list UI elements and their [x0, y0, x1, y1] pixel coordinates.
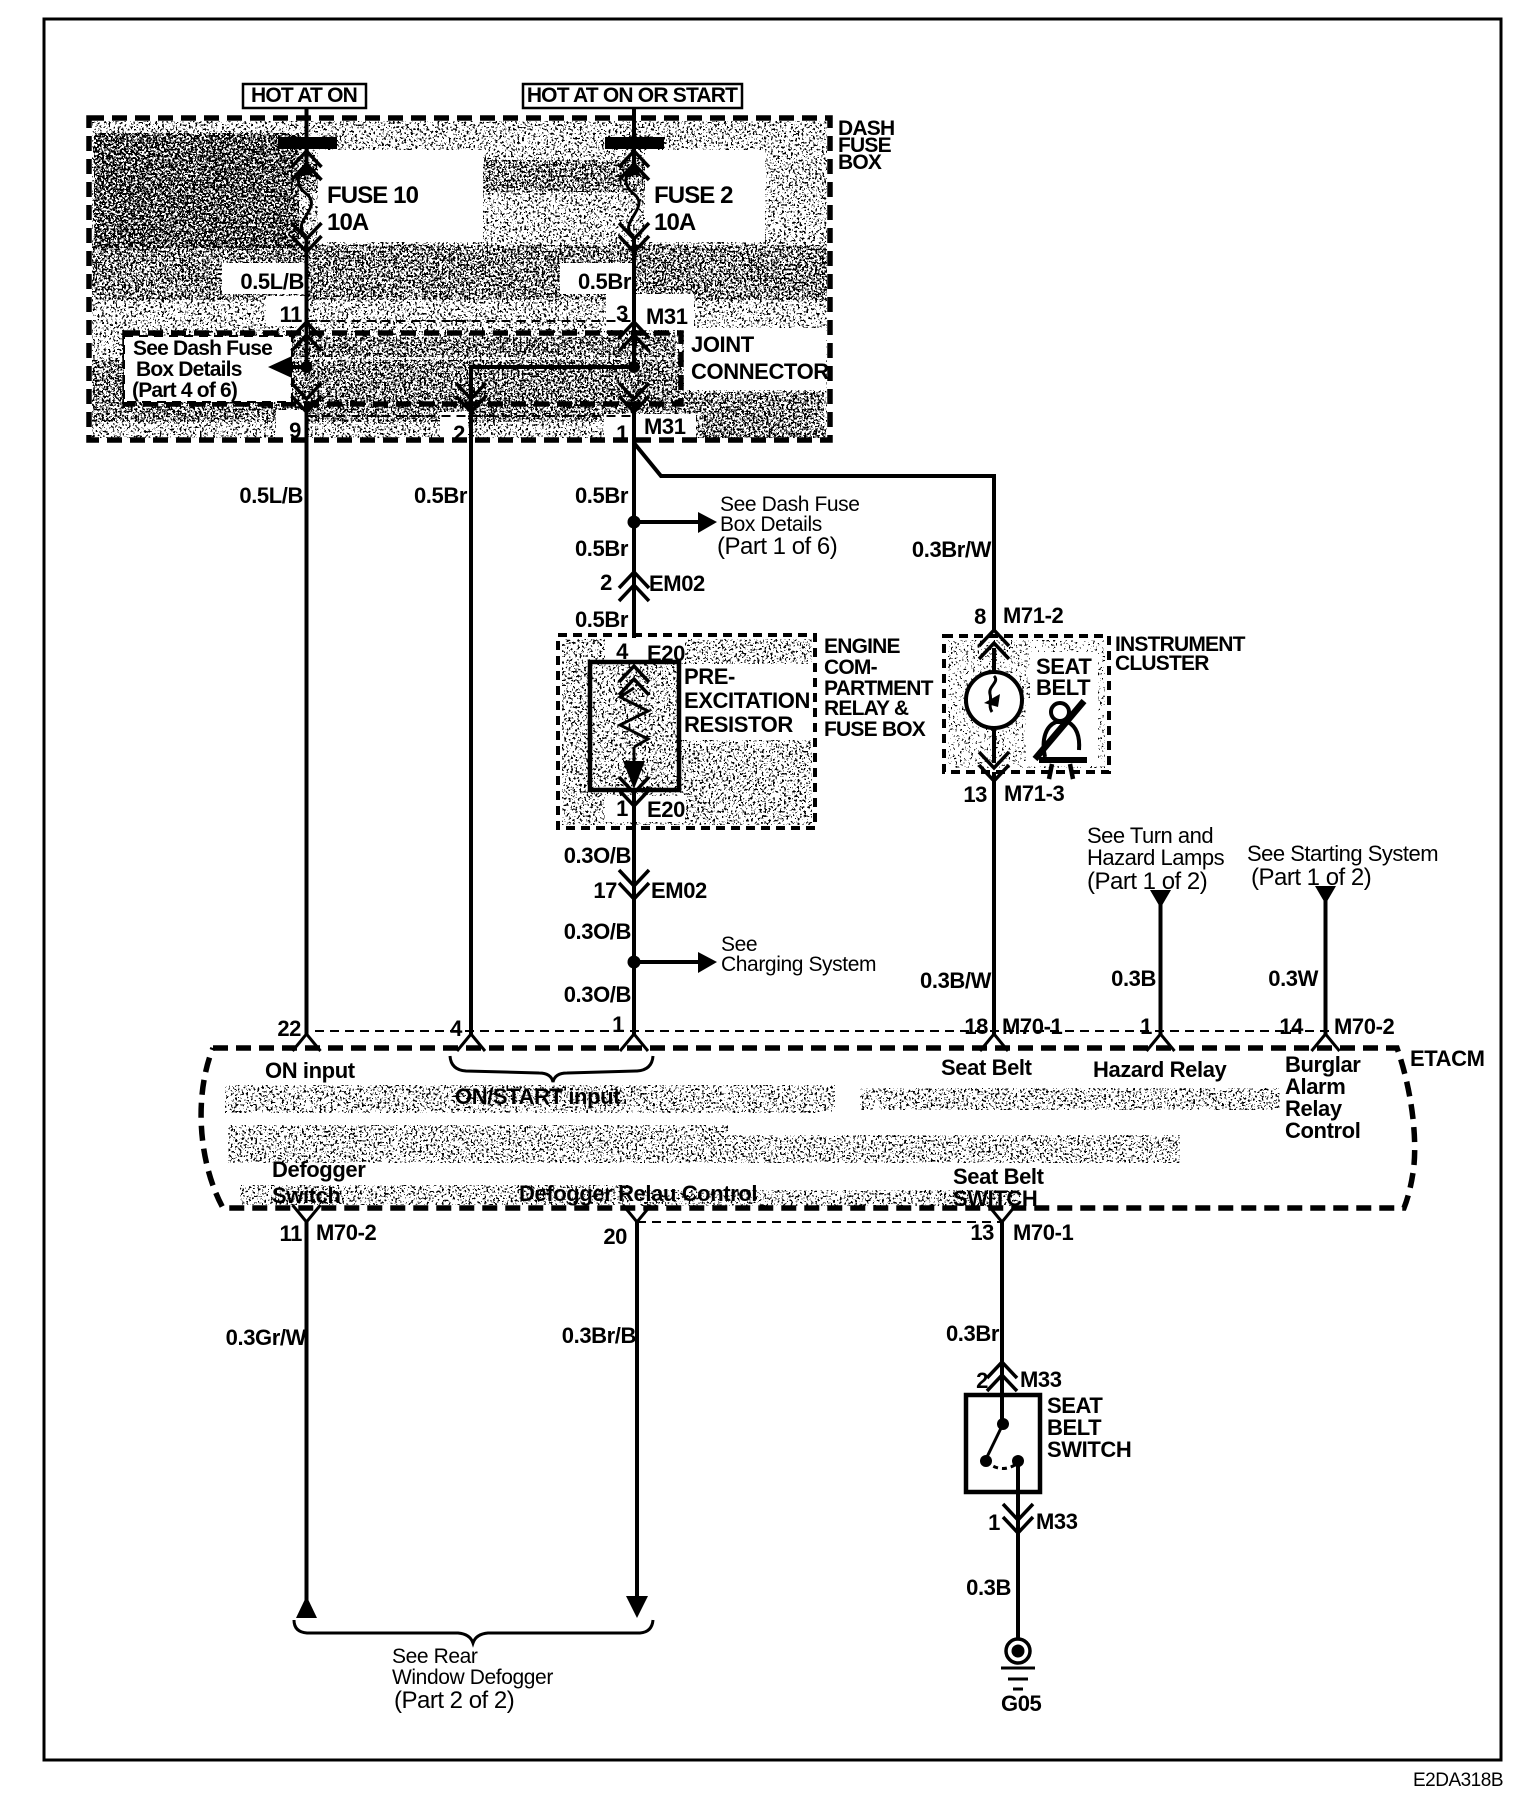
node junction to charging system: [628, 956, 641, 969]
svg-text:2: 2: [600, 570, 612, 595]
svg-text:0.5Br: 0.5Br: [575, 607, 629, 632]
ETACM thin pin rail top: [315, 1030, 1331, 1032]
svg-text:0.3B: 0.3B: [1111, 966, 1156, 991]
svg-text:M70-1: M70-1: [1002, 1014, 1063, 1039]
wire through lamp: [992, 648, 996, 763]
connector M33 pin 2: [987, 1362, 1017, 1391]
ETACM pin 20 fork: [623, 1205, 651, 1222]
see dash fuse box details note box: [124, 336, 292, 402]
ETACM hazard pin 1 fork: [1147, 1034, 1175, 1051]
svg-text:0.3O/B: 0.3O/B: [564, 843, 631, 868]
svg-text:See Dash Fuse: See Dash Fuse: [133, 337, 272, 360]
wire 0.5L/B fuse10 to joint connector: [305, 236, 309, 367]
svg-text:(Part 2 of 2): (Part 2 of 2): [394, 1687, 514, 1714]
svg-text:0.5Br: 0.5Br: [414, 483, 468, 508]
svg-text:18: 18: [964, 1014, 988, 1039]
joint connector pin rail top: [307, 320, 635, 322]
svg-text:G05: G05: [1001, 1691, 1042, 1716]
svg-text:M70-2: M70-2: [1334, 1014, 1395, 1039]
svg-text:M33: M33: [1036, 1509, 1078, 1534]
svg-text:0.5Br: 0.5Br: [575, 536, 629, 561]
svg-text:9: 9: [289, 418, 301, 443]
HOT AT ON label box: [243, 84, 366, 108]
svg-text:4: 4: [450, 1016, 463, 1041]
seat belt switch box: [966, 1395, 1040, 1492]
resistor output arrow: [633, 747, 636, 765]
arrow to see dash fuse details: [290, 365, 307, 369]
E20 pin1 chevron: [619, 777, 649, 806]
wire 0.5L/B joint connector to ETACM pin 22: [305, 404, 309, 1036]
svg-text:M71-3: M71-3: [1004, 781, 1065, 806]
wire 0.3O/B resistor to ETACM pin 1: [632, 790, 636, 1036]
defogger switch arrow up: [296, 1596, 317, 1618]
svg-text:1: 1: [616, 796, 628, 821]
svg-text:HOT AT ON OR START: HOT AT ON OR START: [527, 84, 738, 107]
svg-text:0.5Br: 0.5Br: [578, 269, 632, 294]
connector EM02 pin 17: [619, 870, 649, 899]
fuse F10 connector chevron bottom: [292, 223, 322, 252]
ETACM pin 13 fork: [988, 1205, 1016, 1222]
wire branch to seat belt lamp: [634, 443, 994, 630]
ETACM box outline: [201, 1048, 1415, 1208]
svg-text:SWITCH: SWITCH: [953, 1186, 1037, 1211]
wire fuse2 feed: [632, 108, 636, 166]
ground G05: [1001, 1639, 1042, 1716]
instrument cluster speckle: [948, 640, 1105, 768]
svg-text:FUSE 10: FUSE 10: [327, 182, 419, 209]
svg-text:11: 11: [280, 302, 303, 327]
svg-text:HOT AT ON: HOT AT ON: [251, 84, 357, 107]
svg-text:14: 14: [1279, 1014, 1304, 1039]
svg-text:EM02: EM02: [651, 878, 707, 903]
svg-text:FUSE BOX: FUSE BOX: [824, 718, 926, 741]
engine compartment relay box speckle: [562, 639, 812, 825]
svg-text:0.3Br/B: 0.3Br/B: [562, 1323, 636, 1348]
joint connector pin 1 chevron: [619, 383, 649, 412]
dash fuse box label: [838, 117, 894, 174]
svg-text:0.3Gr/W: 0.3Gr/W: [226, 1325, 307, 1350]
ETACM thin pin rail bottom: [637, 1221, 1002, 1223]
hazard feed arrow: [1150, 890, 1171, 908]
joint connector dashed box: [125, 333, 681, 404]
svg-text:1: 1: [1140, 1014, 1152, 1039]
svg-text:1: 1: [612, 1012, 624, 1037]
seat belt warning lamp: [966, 672, 1022, 728]
svg-text:20: 20: [603, 1224, 627, 1249]
E20 pin4 chevron: [619, 666, 649, 695]
ETACM pin 4 fork: [457, 1034, 485, 1051]
dash fuse box speckle texture: [92, 121, 827, 438]
arrow see charging system: [634, 960, 700, 964]
instrument cluster dashed box: [1030, 652, 1098, 698]
node junction to dash fuse details: [628, 516, 641, 529]
joint connector label: [691, 332, 829, 384]
fuse F2 bus bar: [605, 137, 664, 149]
svg-text:0.3B/W: 0.3B/W: [920, 968, 992, 993]
svg-text:11: 11: [280, 1221, 303, 1246]
svg-text:M31: M31: [646, 304, 688, 329]
svg-text:(Part 1 of 6): (Part 1 of 6): [717, 533, 837, 560]
wire 0.5Br fuse2 to joint connector: [632, 236, 636, 367]
ETACM pin 14 fork: [1312, 1034, 1340, 1051]
wire 0.3Br/B defogger relay control: [635, 1222, 639, 1600]
svg-text:PRE-: PRE-: [684, 664, 735, 689]
ON/START brace: [450, 1056, 653, 1082]
svg-text:BOX: BOX: [838, 151, 882, 174]
wire fuse10 feed: [305, 108, 309, 166]
defogger relay arrow down: [626, 1596, 648, 1618]
ETACM pin 22 fork: [293, 1034, 321, 1051]
svg-text:CLUSTER: CLUSTER: [1115, 652, 1209, 675]
svg-text:E20: E20: [647, 797, 685, 822]
svg-text:M31: M31: [644, 414, 686, 439]
resistor element: [620, 688, 648, 747]
fuse F10 element: [298, 167, 311, 236]
svg-text:BELT: BELT: [1036, 675, 1091, 700]
svg-text:Control: Control: [1285, 1118, 1360, 1143]
seat belt switch label: [1047, 1393, 1131, 1462]
joint connector internal wire to pin 2: [471, 367, 634, 404]
joint connector pin rail bottom: [307, 415, 635, 417]
wire 0.3W to ETACM pin 14: [1324, 898, 1328, 1036]
svg-text:M33: M33: [1020, 1367, 1062, 1392]
wire 0.3Gr/W defogger switch: [305, 1222, 309, 1600]
white patches behind labels in dash fuse box: [222, 150, 826, 444]
svg-text:(Part 4 of 6): (Part 4 of 6): [132, 379, 237, 402]
svg-text:JOINT: JOINT: [691, 332, 755, 357]
svg-text:0.3O/B: 0.3O/B: [564, 919, 631, 944]
HOT AT ON OR START label box: [523, 84, 742, 108]
svg-text:M70-1: M70-1: [1013, 1220, 1074, 1245]
svg-text:CONNECTOR: CONNECTOR: [691, 359, 829, 384]
seat belt lamp label: [1036, 654, 1092, 700]
svg-text:Defogger: Defogger: [272, 1157, 366, 1182]
svg-text:RELAY &: RELAY &: [824, 697, 909, 720]
svg-text:Charging System: Charging System: [721, 953, 876, 976]
svg-text:SWITCH: SWITCH: [1047, 1437, 1131, 1462]
svg-text:8: 8: [974, 604, 986, 629]
switch contacts: [1000, 1395, 1004, 1424]
switch output wire: [1016, 1461, 1020, 1540]
svg-text:E2DA318B: E2DA318B: [1413, 1770, 1503, 1791]
svg-text:0.5Br: 0.5Br: [575, 483, 629, 508]
fuse F2 connector chevron top: [619, 151, 649, 180]
svg-text:2: 2: [453, 421, 465, 446]
svg-text:COM-: COM-: [824, 656, 878, 679]
wire 0.3B to ground: [1016, 1540, 1020, 1640]
svg-text:EM02: EM02: [649, 571, 705, 596]
svg-text:0.3Br: 0.3Br: [946, 1321, 1000, 1346]
dash fuse box dashed border: [89, 118, 830, 440]
joint connector pin 3 chevron: [619, 322, 649, 351]
svg-text:13: 13: [963, 782, 987, 807]
svg-text:RESISTOR: RESISTOR: [684, 712, 793, 737]
svg-text:2: 2: [976, 1368, 988, 1393]
svg-text:Switch: Switch: [272, 1183, 341, 1208]
svg-text:See Starting System: See Starting System: [1247, 841, 1438, 866]
fuse F10 bus bar: [278, 137, 337, 149]
svg-text:Window Defogger: Window Defogger: [392, 1666, 553, 1689]
svg-text:3: 3: [616, 301, 628, 326]
svg-text:0.3B: 0.3B: [966, 1575, 1011, 1600]
joint connector pin 11 chevron: [292, 322, 322, 351]
connector EM02 pin 2: [619, 572, 649, 601]
pre-excitation resistor label: [684, 664, 810, 737]
svg-text:Hazard Relay: Hazard Relay: [1093, 1057, 1228, 1082]
svg-text:22: 22: [277, 1016, 301, 1041]
svg-text:10A: 10A: [654, 209, 696, 236]
svg-text:M70-2: M70-2: [316, 1220, 377, 1245]
svg-text:0.3Br/W: 0.3Br/W: [912, 537, 992, 562]
joint connector pin 2 chevron: [456, 383, 486, 412]
fuse F2 connector chevron bottom: [619, 223, 649, 252]
svg-text:See Rear: See Rear: [392, 1645, 478, 1668]
svg-text:ENGINE: ENGINE: [824, 635, 901, 658]
svg-text:0.5L/B: 0.5L/B: [239, 483, 303, 508]
engine compartment relay box label: [824, 635, 934, 741]
svg-text:ETACM: ETACM: [1410, 1046, 1485, 1071]
wire 0.3B/W cluster to ETACM pin 18: [992, 772, 996, 1036]
joint connector pin 9 chevron: [292, 383, 322, 412]
wire 0.3Br to seat belt switch: [1000, 1222, 1004, 1424]
svg-text:ON/START input: ON/START input: [455, 1084, 621, 1109]
arrow see dash fuse box details part 1: [634, 520, 700, 524]
svg-text:0.3W: 0.3W: [1268, 966, 1318, 991]
wire 0.3B to ETACM hazard relay pin 1: [1159, 902, 1163, 1036]
seat belt icon: [1035, 701, 1087, 779]
svg-text:1: 1: [988, 1510, 1000, 1535]
svg-text:1: 1: [616, 421, 628, 446]
engine compartment relay box: [558, 635, 815, 828]
pre-excitation resistor box: [590, 662, 679, 790]
svg-text:Hazard Lamps: Hazard Lamps: [1087, 845, 1225, 870]
Burglar Alarm Relay Control label: [1285, 1052, 1361, 1143]
svg-text:0.3O/B: 0.3O/B: [564, 982, 631, 1007]
node junction at M31 pin1: [628, 361, 640, 373]
ETACM pin 18 fork: [980, 1034, 1008, 1051]
svg-text:M71-2: M71-2: [1003, 603, 1064, 628]
svg-text:Seat Belt: Seat Belt: [941, 1055, 1033, 1080]
instrument cluster label: [1115, 633, 1246, 675]
svg-text:(Part 1 of 2): (Part 1 of 2): [1087, 868, 1207, 895]
svg-text:(Part 1 of 2): (Part 1 of 2): [1251, 864, 1371, 891]
rear window defogger brace: [294, 1620, 653, 1643]
ETACM pin 1 fork: [620, 1034, 648, 1051]
svg-text:10A: 10A: [327, 209, 369, 236]
svg-text:13: 13: [970, 1220, 994, 1245]
wire 0.5Br joint connector to ETACM pin 4: [469, 404, 473, 1036]
wire 0.5Br pin1 M31 down: [632, 404, 636, 662]
svg-text:Box Details: Box Details: [136, 358, 242, 381]
connector M71-3 pin 13: [979, 752, 1009, 781]
svg-text:0.5L/B: 0.5L/B: [240, 269, 304, 294]
svg-text:Defogger Relau Control: Defogger Relau Control: [519, 1181, 757, 1206]
fuse F2 element: [626, 167, 639, 236]
svg-text:17: 17: [593, 878, 617, 903]
ETACM pin 11 fork: [293, 1205, 321, 1222]
ETACM speckle: [225, 1085, 1280, 1206]
starting system feed arrow: [1315, 886, 1336, 904]
node junction on wire 11-9: [301, 361, 313, 373]
fuse F10 connector chevron top: [292, 151, 322, 180]
svg-text:FUSE 2: FUSE 2: [654, 182, 733, 209]
connector M33 pin 1: [1003, 1504, 1033, 1533]
svg-text:ON input: ON input: [265, 1058, 356, 1083]
svg-text:EXCITATION: EXCITATION: [684, 688, 810, 713]
